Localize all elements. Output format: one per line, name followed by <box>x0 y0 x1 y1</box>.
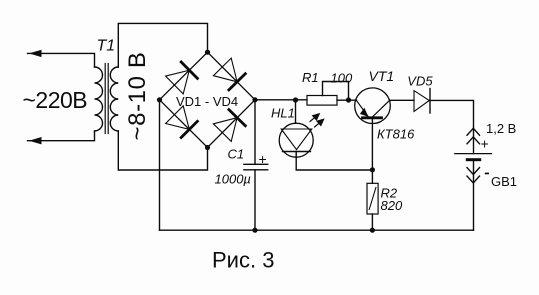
svg-text:Рис. 3: Рис. 3 <box>212 248 274 273</box>
wire bridge left down <box>159 100 161 230</box>
wire VD5 to battery <box>429 100 473 153</box>
node R2 bottom <box>370 228 375 233</box>
transistor VT1 circle <box>355 88 391 124</box>
svg-text:C1: C1 <box>228 147 245 162</box>
wire primary bottom <box>28 131 95 141</box>
diode VD4 cathode bar <box>229 110 245 126</box>
resistor R2 slash <box>369 188 376 210</box>
svg-text:HL1: HL1 <box>271 106 295 121</box>
svg-text:1000µ: 1000µ <box>215 172 251 187</box>
LED HL1 emission arrow shafts <box>310 118 319 127</box>
diode VD1 cathode bar <box>181 62 197 78</box>
node emitter junction <box>370 167 375 172</box>
svg-text:VD1 - VD4: VD1 - VD4 <box>176 94 238 109</box>
svg-text:1,2 В: 1,2 В <box>486 121 516 136</box>
wire collector to VD5 <box>390 99 414 101</box>
battery GB1 connector chevrons top <box>467 128 480 144</box>
node bridge right <box>252 97 257 102</box>
LED HL1 triangle <box>281 129 312 150</box>
node bridge bottom <box>205 145 210 150</box>
svg-text:+: + <box>259 151 267 167</box>
diode VD2 cathode bar <box>229 74 245 90</box>
wire plus rail bridge to R1 <box>255 99 307 101</box>
svg-text:~220В: ~220В <box>23 87 88 113</box>
svg-text:VD5: VD5 <box>407 74 433 89</box>
transistor VT1 collector line <box>372 100 390 118</box>
diode VD3 cathode bar <box>181 121 197 137</box>
transformer T1 primary winding <box>95 67 103 131</box>
diode VD4 bottom-right triangle <box>213 118 237 142</box>
svg-text:R1: R1 <box>302 70 319 85</box>
wire R1 wiper tap <box>323 82 349 100</box>
wire battery bottom <box>473 160 475 231</box>
svg-text:VT1: VT1 <box>369 68 395 84</box>
svg-text:+: + <box>481 136 489 152</box>
LED HL1 emission arrowhead 2 <box>316 118 325 126</box>
capacitor C1 plates <box>244 164 268 170</box>
battery GB1 connector chevrons bottom <box>467 168 480 183</box>
arrow mains bottom <box>29 137 42 144</box>
svg-text:GB1: GB1 <box>491 174 517 189</box>
diode VD3 bottom-left triangle <box>166 106 190 130</box>
wire HL1 bottom to emitter node <box>296 152 372 171</box>
diode VD2 top-right triangle <box>213 58 237 82</box>
wire secondary top to bridge top <box>118 23 207 67</box>
wire R2 bottom <box>371 214 373 230</box>
transistor VT1 emitter arrowhead <box>360 108 369 117</box>
transistor VT1 base bar <box>363 116 382 119</box>
diode VD5 cathode bar <box>429 89 431 114</box>
wire base down to node <box>371 118 373 170</box>
diode VD1 top-left triangle <box>166 70 190 94</box>
battery GB1 short plate <box>467 158 479 161</box>
bridge diamond edges <box>160 52 256 147</box>
node bridge left <box>157 97 162 102</box>
battery GB1 minus mark <box>485 173 489 175</box>
arrow mains top <box>29 50 42 57</box>
wire bottom rail <box>160 229 474 231</box>
wire secondary bottom to bridge bottom <box>118 131 207 170</box>
battery GB1 long plate <box>455 153 492 155</box>
wire primary top <box>28 53 95 67</box>
transformer T1 core <box>105 64 108 134</box>
LED HL1 circle <box>279 123 313 157</box>
wire R2 top <box>371 170 373 184</box>
transistor VT1 emitter line <box>356 100 368 117</box>
transformer T1 secondary winding <box>110 67 118 131</box>
node HL1 tap <box>293 97 298 102</box>
svg-text:Т1: Т1 <box>97 38 116 55</box>
diode VD5 triangle <box>414 91 429 112</box>
svg-text:820: 820 <box>381 198 403 213</box>
wire HL1 branch top <box>295 100 297 123</box>
LED HL1 emission arrowhead 1 <box>312 113 321 121</box>
wire R1 to base <box>337 99 357 101</box>
resistor R1 box <box>307 96 337 106</box>
node base tap <box>346 97 351 102</box>
resistor R2 box <box>367 183 378 214</box>
wire C1 branch <box>254 100 256 230</box>
svg-text:КТ816: КТ816 <box>377 126 415 141</box>
node C1 bottom <box>252 228 257 233</box>
svg-text:~8-10 В: ~8-10 В <box>124 52 151 141</box>
LED HL1 cathode bar <box>283 151 311 153</box>
svg-text:100: 100 <box>331 71 353 86</box>
node bridge top <box>205 50 210 55</box>
